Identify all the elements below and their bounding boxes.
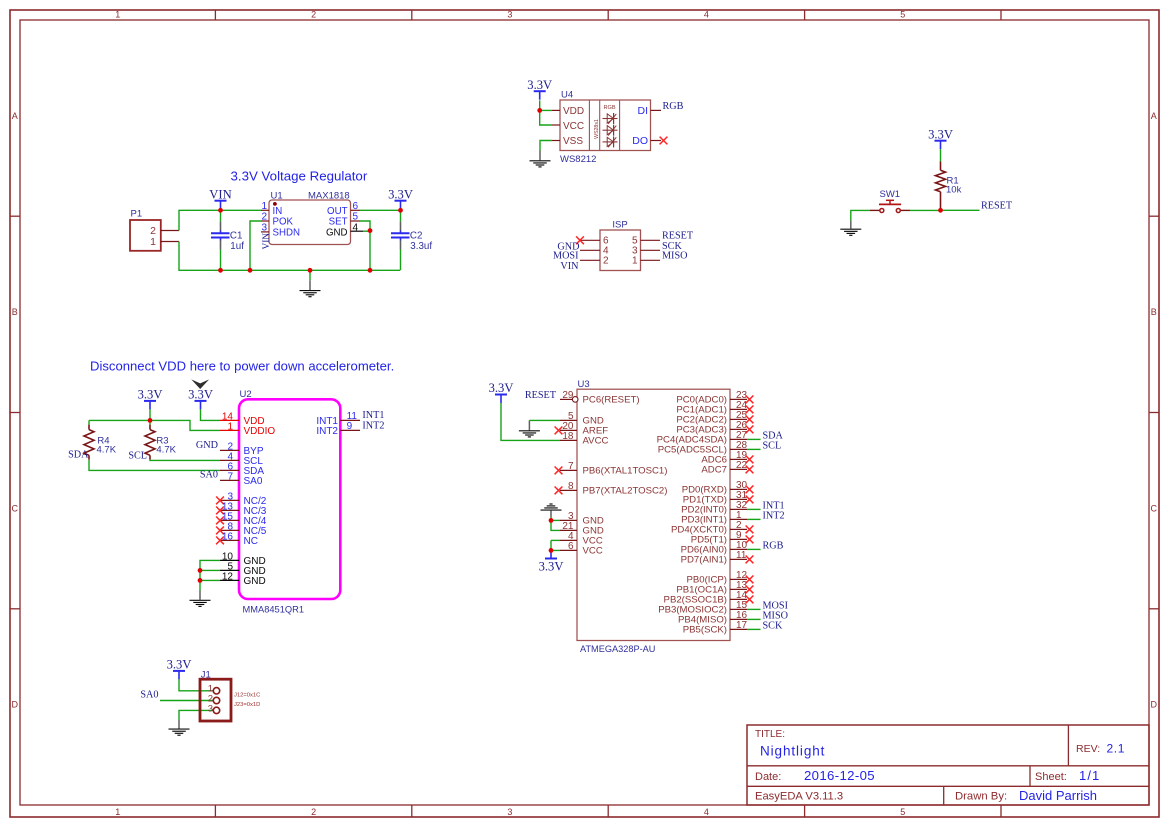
- svg-text:3.3uf: 3.3uf: [410, 241, 432, 252]
- svg-text:C: C: [12, 503, 19, 513]
- svg-text:MISO: MISO: [662, 251, 687, 262]
- svg-text:U1: U1: [271, 190, 283, 201]
- svg-text:2: 2: [311, 10, 316, 20]
- svg-text:WS28s1: WS28s1: [594, 119, 600, 139]
- svg-text:MMA8451QR1: MMA8451QR1: [243, 605, 305, 615]
- junction SET GND: [368, 228, 373, 233]
- svg-text:4.7K: 4.7K: [97, 444, 117, 455]
- IC U4 WS8212: [552, 90, 661, 165]
- svg-text:VDD: VDD: [563, 106, 584, 117]
- no-connect X PB6: [555, 467, 563, 475]
- U2 pin 7 SA0: [220, 471, 263, 487]
- U3 pin 5 GND: [560, 411, 604, 427]
- svg-text:2016-12-05: 2016-12-05: [804, 768, 875, 783]
- no-connect X ISP pin6: [576, 236, 584, 244]
- svg-text:1: 1: [115, 807, 120, 817]
- svg-text:J12=0x1C: J12=0x1C: [234, 692, 260, 698]
- svg-text:DO: DO: [632, 135, 648, 147]
- svg-text:Sheet:: Sheet:: [1035, 771, 1067, 783]
- svg-text:TITLE:: TITLE:: [755, 729, 785, 740]
- svg-text:Disconnect VDD here to power d: Disconnect VDD here to power down accele…: [90, 359, 394, 374]
- no-connect X AREF: [555, 427, 563, 435]
- wire U2 ground pins: [200, 560, 220, 580]
- junction U4 VDD: [537, 108, 542, 113]
- svg-text:3: 3: [507, 10, 512, 20]
- svg-text:ISP: ISP: [612, 219, 627, 230]
- svg-text:1: 1: [227, 421, 233, 432]
- svg-text:SDA: SDA: [68, 450, 89, 461]
- svg-text:3.3V: 3.3V: [167, 658, 192, 672]
- resistor R3: [145, 420, 177, 459]
- wire 3.3V to J1 pin1: [179, 679, 213, 690]
- svg-text:OUT: OUT: [327, 206, 348, 217]
- svg-text:RGB: RGB: [763, 540, 784, 551]
- svg-text:C: C: [1151, 503, 1158, 513]
- svg-text:RESET: RESET: [981, 200, 1013, 211]
- U2 pin 12 GND: [220, 571, 266, 587]
- svg-text:IN: IN: [273, 206, 283, 217]
- U2 pin 15 NC/4: [216, 511, 267, 527]
- U3 pin 32 PD2(INT0): [681, 500, 760, 516]
- power flag 3.3V regulator output: [388, 187, 413, 209]
- junction VIN rail: [218, 208, 223, 213]
- U2 pin 8 NC/5: [216, 521, 267, 537]
- U3 pin 26 PC3(ADC3): [676, 420, 753, 436]
- svg-text:DI: DI: [638, 105, 649, 117]
- svg-text:5: 5: [900, 807, 905, 817]
- svg-text:U3: U3: [578, 379, 590, 390]
- svg-text:3.3V: 3.3V: [928, 127, 953, 141]
- svg-text:1/1: 1/1: [1079, 768, 1100, 783]
- svg-text:SA0: SA0: [200, 470, 218, 481]
- capacitor C2: [391, 210, 432, 270]
- U2 pin 9 INT2: [316, 421, 360, 437]
- wire 3.3V to AVCC: [501, 403, 560, 440]
- U3 pin 21 GND: [560, 521, 604, 537]
- wire R3 to SCL pin: [150, 459, 220, 462]
- svg-text:VCC: VCC: [563, 121, 584, 132]
- no-connect X on DO: [660, 137, 668, 145]
- svg-text:ADC7: ADC7: [701, 465, 727, 476]
- svg-text:VSS: VSS: [563, 136, 583, 147]
- svg-text:NC: NC: [244, 536, 258, 547]
- svg-text:3.3V: 3.3V: [188, 388, 213, 402]
- U3 pin 25 PC2(ADC2): [676, 410, 753, 426]
- svg-text:INT2: INT2: [362, 420, 384, 431]
- junction OUT 3.3V: [398, 208, 403, 213]
- svg-text:4: 4: [704, 807, 709, 817]
- wire to RESET label: [941, 209, 980, 211]
- svg-text:3.3V: 3.3V: [489, 381, 514, 395]
- ground U2: [190, 580, 211, 606]
- wire R4 to SDA pin: [89, 460, 220, 471]
- svg-text:SCL: SCL: [763, 440, 782, 451]
- ground SW1: [840, 221, 861, 236]
- U2 pin 1 VDDIO: [220, 421, 275, 437]
- MCU U3 ATMEGA328P-AU body: [577, 379, 730, 654]
- svg-text:SET: SET: [329, 217, 348, 228]
- svg-text:C2: C2: [410, 230, 423, 241]
- svg-text:3.3V: 3.3V: [527, 78, 552, 92]
- op-amp U1 regulator MAX1818: [261, 190, 363, 244]
- svg-text:8: 8: [568, 481, 574, 492]
- svg-text:PC6(RESET): PC6(RESET): [583, 395, 640, 406]
- svg-text:Date:: Date:: [755, 771, 781, 783]
- U3 pin 29 PC6(RESET): [560, 390, 640, 406]
- svg-text:PD7(AIN1): PD7(AIN1): [681, 555, 727, 566]
- svg-text:GND: GND: [244, 576, 266, 587]
- svg-text:1uf: 1uf: [230, 241, 244, 252]
- no-connect X PB7: [555, 487, 563, 495]
- U2 pin 10 GND: [220, 551, 266, 567]
- U3 pin 2 PD4(XCKT0): [671, 520, 753, 536]
- svg-text:4: 4: [353, 223, 359, 234]
- power flag 3.3V (VDDIO net): [138, 388, 163, 410]
- svg-text:3.3V: 3.3V: [138, 388, 163, 402]
- junction U3 gnd: [549, 518, 554, 523]
- svg-text:SA0: SA0: [140, 689, 158, 700]
- power flag VIN: [209, 187, 231, 209]
- svg-text:Nightlight: Nightlight: [760, 743, 825, 758]
- svg-text:SCK: SCK: [763, 620, 783, 631]
- U2 pin 5 GND: [220, 561, 266, 577]
- junction C2 branch bottom: [368, 268, 373, 273]
- svg-text:J23=0x1D: J23=0x1D: [234, 702, 260, 708]
- wire switch to RESET node: [910, 209, 941, 211]
- U3 pin 14 PB2(SSOC1B): [664, 590, 754, 606]
- svg-text:7: 7: [568, 461, 574, 472]
- svg-text:C1: C1: [230, 230, 243, 241]
- svg-text:3: 3: [208, 703, 213, 714]
- wire VSS to ground: [540, 141, 552, 151]
- svg-text:INT2: INT2: [763, 510, 785, 521]
- U3 pin 28 PC5(ADC5SCL): [658, 440, 761, 456]
- U3 pin 16 PB4(MISO): [678, 610, 761, 626]
- svg-text:PB5(SCK): PB5(SCK): [683, 625, 727, 636]
- svg-text:3.3V: 3.3V: [388, 187, 413, 201]
- J1 strap value labels: [234, 692, 260, 707]
- svg-text:2.1: 2.1: [1107, 741, 1125, 755]
- U2 pin 4 SCL: [220, 451, 263, 467]
- wire P1 pin2 to VIN rail: [179, 210, 261, 230]
- junction ground rail: [308, 268, 313, 273]
- svg-text:RESET: RESET: [525, 390, 557, 401]
- U3 pin 3 GND: [560, 511, 604, 527]
- power flag 3.3V (J1): [167, 658, 192, 680]
- switch SW1: [870, 189, 910, 213]
- svg-text:VCC: VCC: [583, 546, 603, 557]
- svg-text:RGB: RGB: [663, 101, 684, 112]
- power flag 3.3V for U4: [527, 78, 552, 100]
- svg-text:6: 6: [568, 541, 574, 552]
- svg-text:J1: J1: [201, 669, 211, 680]
- accelerometer U2 MMA8451QR1 body: [239, 389, 340, 615]
- U3 pin 30 PD0(RXD): [682, 480, 754, 496]
- ground U4: [530, 151, 551, 167]
- annotation arrow: [191, 379, 209, 389]
- svg-text:P1: P1: [131, 209, 143, 220]
- U3 pin 7 PB6(XTAL1TOSC1): [560, 461, 667, 477]
- U2 pin 14 VDD: [220, 411, 265, 427]
- U2 pin 3 NC/2: [216, 491, 267, 507]
- U3 pin 10 PD6(AIN0): [681, 540, 761, 556]
- wire SET+GND to rail: [360, 221, 370, 270]
- U3 pin 17 PB5(SCK): [683, 620, 761, 636]
- svg-text:A: A: [1151, 111, 1157, 121]
- wire VCC pins 4/6: [551, 539, 560, 541]
- wire GND pin5: [529, 419, 560, 421]
- svg-text:WS8212: WS8212: [560, 154, 596, 165]
- U3 pin 12 PB0(ICP): [686, 570, 753, 586]
- junction VDDIO rail: [148, 418, 153, 423]
- svg-text:5: 5: [900, 10, 905, 20]
- svg-text:3.3V Voltage Regulator: 3.3V Voltage Regulator: [231, 168, 368, 183]
- U3 pin 27 PC4(ADC4SDA): [657, 430, 761, 446]
- svg-text:D: D: [1151, 700, 1158, 710]
- svg-text:VIN: VIN: [209, 187, 231, 201]
- junction U2 gnd 12: [198, 578, 203, 583]
- wire to VCC: [540, 110, 552, 125]
- svg-text:4.7K: 4.7K: [156, 444, 176, 455]
- svg-text:7: 7: [227, 471, 233, 482]
- U3 pin 24 PC1(ADC1): [676, 400, 753, 416]
- junction U2 gnd 5: [198, 568, 203, 573]
- svg-text:REV:: REV:: [1076, 743, 1100, 755]
- wire grounds to pins 3/21: [551, 519, 560, 521]
- svg-text:GND: GND: [326, 227, 348, 238]
- svg-text:INT2: INT2: [316, 426, 338, 437]
- svg-text:AVCC: AVCC: [583, 436, 609, 447]
- U3 pin 8 PB7(XTAL2TOSC2): [560, 481, 667, 497]
- svg-text:9: 9: [347, 421, 353, 432]
- resistor R4: [84, 420, 117, 459]
- svg-text:B: B: [12, 307, 18, 317]
- svg-text:RGB: RGB: [603, 105, 615, 111]
- svg-text:U2: U2: [240, 389, 252, 400]
- svg-text:EasyEDA V3.11.3: EasyEDA V3.11.3: [755, 791, 843, 803]
- U3 pin 11 PD7(AIN1): [681, 550, 754, 566]
- svg-text:17: 17: [736, 620, 748, 631]
- svg-text:SHDN: SHDN: [273, 227, 300, 238]
- svg-text:SA0: SA0: [244, 476, 263, 487]
- wire P1 pin1 to ground rail: [179, 242, 400, 271]
- U3 pin 18 AVCC: [560, 431, 609, 447]
- svg-text:1: 1: [115, 10, 120, 20]
- svg-text:David Parrish: David Parrish: [1019, 788, 1097, 803]
- svg-text:12: 12: [222, 571, 234, 582]
- U2 pin 13 NC/3: [216, 501, 267, 517]
- svg-text:RESET: RESET: [662, 230, 694, 241]
- U3 pin 23 PC0(ADC0): [676, 390, 753, 406]
- resistor R1: [936, 149, 962, 209]
- U3 pin 13 PB1(OC1A): [676, 580, 753, 596]
- connector P1: [130, 209, 179, 251]
- title block: [747, 725, 1149, 805]
- svg-text:11: 11: [736, 550, 747, 561]
- wire J1 pin3 to ground: [179, 710, 213, 720]
- svg-text:A: A: [12, 111, 18, 121]
- svg-text:PB6(XTAL1TOSC1): PB6(XTAL1TOSC1): [583, 466, 668, 477]
- svg-text:ATMEGA328P-AU: ATMEGA328P-AU: [580, 644, 655, 654]
- svg-text:2: 2: [603, 256, 609, 267]
- svg-text:B: B: [1151, 307, 1157, 317]
- wire SA0 to J1 pin2: [160, 700, 213, 702]
- svg-text:VIN: VIN: [560, 261, 579, 272]
- svg-text:D: D: [12, 700, 19, 710]
- U2 pin 11 INT1: [316, 411, 360, 427]
- capacitor C1: [211, 210, 244, 270]
- ground U3 pin3 (inverted): [541, 504, 562, 520]
- svg-text:PB7(XTAL2TOSC2): PB7(XTAL2TOSC2): [583, 486, 668, 497]
- wire 3.3V-VDD to pin 14: [201, 409, 221, 420]
- svg-text:3.3V: 3.3V: [539, 559, 564, 573]
- power flag 3.3V (AVCC): [489, 381, 514, 403]
- U2 pin 6 SDA: [220, 461, 264, 477]
- svg-text:POK: POK: [273, 217, 294, 228]
- wire 3.3V to VDD: [540, 100, 552, 110]
- svg-text:Drawn By:: Drawn By:: [955, 791, 1007, 803]
- ground J1: [169, 720, 190, 735]
- U3 pin 31 PD1(TXD): [683, 490, 754, 506]
- wire OUT to 3.3V: [360, 209, 401, 211]
- wire POK to ground rail: [250, 221, 261, 270]
- U3 pin 19 ADC6: [701, 450, 753, 466]
- svg-text:10k: 10k: [946, 185, 962, 196]
- ground regulator rail: [300, 270, 321, 296]
- svg-text:VDDIO: VDDIO: [244, 426, 276, 437]
- svg-text:2: 2: [311, 807, 316, 817]
- svg-text:4: 4: [704, 10, 709, 20]
- wire VDDIO rail: [149, 409, 151, 420]
- junction C1 bottom: [218, 268, 223, 273]
- junction RESET node: [938, 208, 943, 213]
- wire switch to ground: [851, 210, 870, 220]
- svg-text:SW1: SW1: [880, 189, 901, 200]
- svg-text:1: 1: [150, 236, 156, 248]
- svg-text:SCL: SCL: [128, 451, 147, 462]
- svg-text:18: 18: [562, 431, 574, 442]
- power flag 3.3V (VCC) below: [539, 550, 564, 573]
- junction POK branch bottom: [248, 268, 253, 273]
- U2 pin 2 BYP: [220, 441, 264, 457]
- U3 pin 15 PB3(MOSIOC2): [658, 600, 760, 616]
- power flag 3.3V for R1: [928, 127, 953, 149]
- U3 pin 9 PD5(T1): [691, 530, 754, 546]
- svg-text:GND: GND: [196, 440, 218, 451]
- junction U3 vcc: [549, 548, 554, 553]
- U3 pin 1 PD3(INT1): [681, 510, 760, 526]
- ground U3 pin5: [519, 420, 540, 437]
- svg-text:1: 1: [632, 256, 638, 267]
- U3 pin 6 VCC: [560, 541, 603, 557]
- U3 pin 4 VCC: [560, 531, 603, 547]
- svg-text:MAX1818: MAX1818: [308, 190, 350, 201]
- connector ISP header: [580, 219, 660, 270]
- svg-text:3: 3: [507, 807, 512, 817]
- svg-text:VIN: VIN: [262, 233, 272, 250]
- LED diodes inside U4: [603, 113, 618, 147]
- U3 pin 20 AREF: [560, 421, 608, 437]
- U2 pin 16 NC: [216, 531, 258, 547]
- svg-text:U4: U4: [561, 90, 573, 101]
- U3 pin 22 ADC7: [701, 460, 753, 476]
- svg-text:29: 29: [562, 390, 574, 401]
- power flag 3.3V (VDD net): [188, 388, 213, 410]
- connector J1: [200, 669, 231, 721]
